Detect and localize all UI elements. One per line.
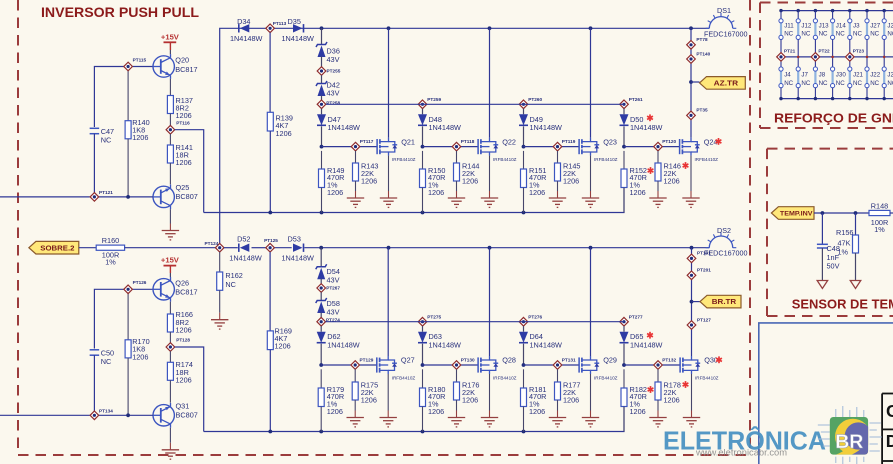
ground (Q23 source) xyxy=(582,156,599,208)
resistor R152 470R 1% xyxy=(621,151,653,213)
wire gate net PT120 xyxy=(622,145,680,149)
ground (R176) xyxy=(448,418,465,427)
ground (Q21 source) xyxy=(380,156,397,208)
svg-text:NC: NC xyxy=(887,31,893,38)
dashed border REFORCO DE GND box xyxy=(760,3,893,129)
wire gate net PT132 xyxy=(622,363,680,367)
resistor R151 470R 1% xyxy=(521,151,547,213)
diode D52 1N4148W xyxy=(229,235,262,263)
svg-text:1N4148W: 1N4148W xyxy=(281,253,314,262)
zener diode D42 43V xyxy=(316,75,340,100)
title block frame xyxy=(882,394,893,464)
wire gate net PT130 xyxy=(421,363,479,367)
wire input net (left edge to Q31 base) xyxy=(0,413,153,417)
transistor Q31 BC807 xyxy=(153,401,198,427)
diode D65 1N4148W xyxy=(620,326,663,365)
wire base net Q26 / PT126 xyxy=(94,289,152,348)
title block letter D xyxy=(886,431,893,451)
wire gate net PT129 xyxy=(319,363,376,367)
svg-text:PT115: PT115 xyxy=(133,57,147,62)
wire gate net PT131 xyxy=(522,363,580,367)
svg-text:43V: 43V xyxy=(327,55,340,64)
capacitor C48 1nF 50V xyxy=(817,213,840,281)
svg-text:1206: 1206 xyxy=(529,188,545,197)
resistor R156 47K 1% xyxy=(836,213,859,281)
svg-text:IRFB4410Z: IRFB4410Z xyxy=(493,157,517,162)
diode D64 1N4148W xyxy=(519,326,562,365)
svg-text:1206: 1206 xyxy=(630,188,646,197)
svg-text:D53: D53 xyxy=(288,235,301,244)
svg-text:Q23: Q23 xyxy=(603,137,617,146)
ground (R178) xyxy=(649,418,666,427)
svg-text:J12: J12 xyxy=(801,23,812,30)
zener diode D54 43V xyxy=(316,248,340,285)
section title INVERSOR PUSH PULL xyxy=(41,5,199,20)
svg-text:PT116: PT116 xyxy=(176,120,190,125)
svg-text:1206: 1206 xyxy=(327,188,343,197)
test point PT274 xyxy=(317,317,340,326)
test point PT276 xyxy=(519,314,542,326)
ground (R143) xyxy=(347,198,364,207)
svg-text:NC: NC xyxy=(853,31,862,38)
ground (Q27 source) xyxy=(380,374,397,427)
wire drain column Q29 xyxy=(590,248,592,356)
net flag TEMP.INV xyxy=(771,207,814,220)
net flag AZ.TR xyxy=(689,77,745,90)
wire input net (left edge to Q25 base) xyxy=(0,195,153,199)
svg-text:J27: J27 xyxy=(870,23,881,30)
test point PT261 xyxy=(620,97,643,109)
svg-text:DS1: DS1 xyxy=(717,6,731,15)
svg-text:NC: NC xyxy=(225,280,236,289)
svg-text:47K: 47K xyxy=(838,239,851,248)
svg-text:1%: 1% xyxy=(838,248,849,257)
wire driver output PT128 to gate rail xyxy=(175,347,204,432)
svg-text:IRFB4410Z: IRFB4410Z xyxy=(493,375,517,380)
watermark BR chip logo xyxy=(818,406,882,464)
ground (R144) xyxy=(448,198,465,207)
svg-text:PT261: PT261 xyxy=(629,97,643,102)
svg-text:1206: 1206 xyxy=(176,376,192,385)
transistor Q28 IRFB4410Z xyxy=(478,356,517,381)
jumper J26 NC xyxy=(882,9,893,57)
test point PT255 xyxy=(317,67,341,76)
svg-text:D52: D52 xyxy=(237,235,250,244)
wire drain column Q22 xyxy=(489,28,491,137)
wire gate net PT119 xyxy=(522,145,580,149)
resistor R170 1K8 xyxy=(125,337,150,415)
jumper J30 NC xyxy=(831,57,847,100)
svg-text:REFORÇO DE GND: REFORÇO DE GND xyxy=(774,111,893,126)
resistor R180 470R 1% xyxy=(420,369,446,431)
svg-text:NC: NC xyxy=(801,80,810,87)
svg-text:J21: J21 xyxy=(853,72,864,79)
svg-text:J3: J3 xyxy=(853,23,860,30)
svg-text:NC: NC xyxy=(819,80,828,87)
svg-text:R160: R160 xyxy=(102,236,119,245)
svg-text:1%: 1% xyxy=(874,225,885,234)
svg-text:AZ.TR: AZ.TR xyxy=(714,79,739,88)
test point PT134 xyxy=(90,408,113,419)
test point PT116 xyxy=(166,120,190,134)
svg-text:1206: 1206 xyxy=(176,158,192,167)
svg-text:PT134: PT134 xyxy=(99,408,113,413)
svg-text:DS2: DS2 xyxy=(717,226,731,235)
transistor Q26 BC817 xyxy=(153,277,198,302)
svg-text:NC: NC xyxy=(870,80,879,87)
svg-text:NC: NC xyxy=(784,31,793,38)
svg-text:Q30: Q30 xyxy=(704,356,718,365)
svg-text:PT125: PT125 xyxy=(264,238,278,243)
test point PT131 xyxy=(553,358,576,370)
lamp DS1 FEDC167000 xyxy=(704,6,748,38)
svg-text:R148: R148 xyxy=(871,201,888,210)
wire R160 to PT124 xyxy=(125,247,216,249)
diode D63 1N4148W xyxy=(418,326,461,365)
svg-text:+15V: +15V xyxy=(161,256,180,265)
svg-text:J23: J23 xyxy=(887,72,893,79)
test point PT260 xyxy=(519,97,542,109)
capacitor C47 NC xyxy=(90,127,114,193)
test point PT140 xyxy=(687,51,711,63)
section title REFORCO DE GND xyxy=(774,111,893,126)
test point PT132 xyxy=(654,358,677,370)
svg-text:1N4148W: 1N4148W xyxy=(630,123,663,132)
diode D47 1N4148W xyxy=(317,109,360,147)
resistor R179 470R 1% xyxy=(318,369,344,431)
svg-text:1206: 1206 xyxy=(275,341,291,350)
ground (R146) xyxy=(649,198,666,207)
svg-text:PT120: PT120 xyxy=(662,139,676,144)
jumper J21 NC xyxy=(848,57,864,100)
test point PT113 xyxy=(266,21,287,32)
transistor Q30 IRFB4410Z xyxy=(680,356,722,381)
svg-text:IRFB4410Z: IRFB4410Z xyxy=(392,157,416,162)
svg-text:43V: 43V xyxy=(327,276,340,285)
svg-text:PT127: PT127 xyxy=(697,317,711,322)
ground (R175) xyxy=(347,418,364,427)
transistor Q27 IRFB4410Z xyxy=(377,356,416,381)
power +15V (top driver) xyxy=(161,32,180,54)
svg-text:R156: R156 xyxy=(836,228,853,237)
ground (Q24 source) xyxy=(682,156,699,208)
ground (R177) xyxy=(549,418,566,427)
svg-text:1206: 1206 xyxy=(276,129,292,138)
svg-text:PT23: PT23 xyxy=(853,48,865,53)
svg-text:Q20: Q20 xyxy=(175,56,189,65)
svg-text:PT117: PT117 xyxy=(360,139,374,144)
svg-text:PT130: PT130 xyxy=(461,358,475,363)
svg-text:50V: 50V xyxy=(827,262,840,271)
svg-text:PT78: PT78 xyxy=(696,37,708,42)
svg-text:NC: NC xyxy=(853,80,862,87)
wire driver output PT116 to gate rail xyxy=(175,130,204,213)
wire drain column Q23 xyxy=(590,28,592,137)
svg-text:1206: 1206 xyxy=(563,176,579,185)
svg-text:PT35: PT35 xyxy=(696,108,708,113)
jumper J11 NC xyxy=(779,9,794,57)
svg-text:PT131: PT131 xyxy=(562,358,576,363)
svg-text:FEDC167000: FEDC167000 xyxy=(704,29,748,38)
section title SENSOR DE TEMPERATURA xyxy=(792,297,893,312)
zener diode D36 43V xyxy=(316,28,340,66)
jumper J23 NC xyxy=(882,57,893,100)
resistor R166 8R2 xyxy=(167,302,193,343)
svg-text:Q24: Q24 xyxy=(704,137,718,146)
ground (Q29 source) xyxy=(582,374,599,427)
jumper J4 NC xyxy=(779,57,794,100)
svg-text:Q27: Q27 xyxy=(401,356,415,365)
resistor R177 22K xyxy=(555,369,581,417)
resistor R150 470R 1% xyxy=(420,151,446,213)
wire PT258 rail (top) xyxy=(326,103,624,105)
svg-text:BC817: BC817 xyxy=(175,65,197,74)
svg-text:1206: 1206 xyxy=(428,407,444,416)
svg-text:1206: 1206 xyxy=(428,188,444,197)
svg-text:PT277: PT277 xyxy=(629,314,643,319)
svg-text:SOBRE.2: SOBRE.2 xyxy=(40,243,74,252)
svg-text:+15V: +15V xyxy=(161,32,180,41)
net flag SOBRE.2 xyxy=(29,241,79,254)
test point PT124 xyxy=(204,241,224,252)
test point PT119 xyxy=(553,139,576,151)
test point PT121 xyxy=(90,190,113,201)
svg-text:J14: J14 xyxy=(836,23,847,30)
wire base net Q20 / PT115 xyxy=(94,67,152,128)
resistor R149 470R 1% xyxy=(319,151,345,213)
ground (Q22 source) xyxy=(481,156,498,208)
svg-text:PT21: PT21 xyxy=(784,48,796,53)
svg-text:Q31: Q31 xyxy=(176,401,190,410)
svg-text:1%: 1% xyxy=(105,258,116,267)
svg-text:Q26: Q26 xyxy=(175,278,189,287)
watermark ELETRONICA BR xyxy=(663,426,826,458)
transistor Q21 IRFB4410Z xyxy=(377,137,416,162)
jumper J7 NC xyxy=(796,57,811,100)
svg-text:Q25: Q25 xyxy=(176,183,190,192)
transistor Q22 IRFB4410Z xyxy=(478,137,517,162)
diode D34 1N4148W xyxy=(230,17,263,43)
test point PT191 xyxy=(687,251,711,263)
svg-text:1206: 1206 xyxy=(361,176,377,185)
svg-text:PT191: PT191 xyxy=(697,251,711,256)
wire drain column Q27 xyxy=(387,248,389,356)
resistor R181 470R 1% xyxy=(521,369,547,431)
svg-text:IRFB4410Z: IRFB4410Z xyxy=(594,157,618,162)
diode D62 1N4148W xyxy=(317,326,360,365)
ground (Q31 emitter) xyxy=(162,428,179,460)
wire top drive rail xyxy=(204,188,624,215)
svg-text:1206: 1206 xyxy=(176,111,192,120)
resistor R144 22K xyxy=(454,151,480,198)
resistor R176 22K xyxy=(454,369,480,417)
junction (grid mid bus) xyxy=(797,56,800,59)
resistor R146 22K xyxy=(655,151,688,198)
wire drain column Q30 xyxy=(691,248,693,356)
net flag BR.TR xyxy=(690,295,741,308)
svg-text:PT276: PT276 xyxy=(528,314,542,319)
svg-text:J11: J11 xyxy=(784,23,794,30)
test point PT277 xyxy=(620,314,643,326)
wire top drain rail xyxy=(220,26,710,243)
svg-text:www.eletronicabr.com: www.eletronicabr.com xyxy=(695,447,787,457)
svg-text:NC: NC xyxy=(784,80,793,87)
junction (grid mid bus) xyxy=(866,56,869,59)
resistor R162 NC xyxy=(217,252,243,290)
svg-text:PT140: PT140 xyxy=(696,51,710,56)
resistor R148 100R 1% xyxy=(869,201,893,234)
test point PT275 xyxy=(418,314,441,326)
resistor R137 8R2 xyxy=(167,79,193,126)
svg-text:Q28: Q28 xyxy=(502,356,516,365)
test point PT267 xyxy=(317,284,341,293)
svg-text:1206: 1206 xyxy=(132,133,148,142)
svg-text:D: D xyxy=(886,431,893,451)
svg-text:NC: NC xyxy=(836,80,845,87)
test point PT125 xyxy=(264,238,278,252)
svg-text:1206: 1206 xyxy=(664,395,680,404)
svg-text:PT129: PT129 xyxy=(360,358,374,363)
jumper J13 NC xyxy=(813,9,829,57)
svg-text:NC: NC xyxy=(801,31,810,38)
svg-text:J30: J30 xyxy=(836,72,847,79)
wire TEMP.INV net xyxy=(814,211,869,215)
svg-text:INVERSOR PUSH PULL: INVERSOR PUSH PULL xyxy=(41,5,199,20)
capacitor C50 NC xyxy=(90,349,114,412)
jumper J14 NC xyxy=(831,9,847,57)
test point PT259 xyxy=(418,97,441,109)
svg-text:J7: J7 xyxy=(801,72,808,79)
ground (Q28 source) xyxy=(481,374,498,427)
test point PT258 xyxy=(317,100,340,109)
svg-text:1N4148W: 1N4148W xyxy=(429,123,462,132)
resistor R139 4K7 xyxy=(267,33,293,213)
svg-text:BC817: BC817 xyxy=(175,288,197,297)
transistor Q23 IRFB4410Z xyxy=(579,137,618,162)
svg-text:J8: J8 xyxy=(819,72,826,79)
dashed border SENSOR DE TEMPERATURA box xyxy=(767,149,893,316)
svg-text:NC: NC xyxy=(101,357,112,366)
diode D48 1N4148W xyxy=(418,109,461,147)
test point PT201 xyxy=(687,268,711,280)
resistor R182 470R 1% xyxy=(621,369,653,431)
test point PT23 xyxy=(846,48,865,61)
svg-text:PT119: PT119 xyxy=(562,139,576,144)
jumper J8 NC xyxy=(813,57,828,100)
svg-text:IRFB4410Z: IRFB4410Z xyxy=(392,375,416,380)
test point PT21 xyxy=(777,48,796,61)
zener diode D58 43V xyxy=(316,292,340,317)
svg-text:1206: 1206 xyxy=(176,326,192,335)
jumper J22 NC xyxy=(865,57,881,100)
svg-text:1N4148W: 1N4148W xyxy=(229,253,262,262)
test point PT120 xyxy=(654,139,677,151)
jumper J27 NC xyxy=(865,9,881,57)
svg-text:D35: D35 xyxy=(288,17,301,26)
svg-text:C: C xyxy=(886,401,893,421)
svg-text:J22: J22 xyxy=(870,72,881,79)
svg-text:PT260: PT260 xyxy=(528,97,542,102)
svg-text:1N4148W: 1N4148W xyxy=(281,34,314,43)
title block letter C xyxy=(886,401,893,421)
svg-text:1206: 1206 xyxy=(529,407,545,416)
test point PT22 xyxy=(811,48,830,61)
svg-text:IRFB4410Z: IRFB4410Z xyxy=(594,375,618,380)
svg-text:43V: 43V xyxy=(327,307,340,316)
svg-text:1206: 1206 xyxy=(462,176,478,185)
wire gate net PT118 xyxy=(421,145,479,149)
test point PT130 xyxy=(452,358,475,370)
svg-text:TEMP.INV: TEMP.INV xyxy=(780,211,813,218)
svg-text:1206: 1206 xyxy=(563,395,579,404)
svg-text:1206: 1206 xyxy=(630,407,646,416)
svg-text:1N4148W: 1N4148W xyxy=(327,341,360,350)
wire jumper grid buses xyxy=(781,11,893,99)
svg-text:PT259: PT259 xyxy=(427,97,441,102)
ground (Q30 source) xyxy=(683,374,700,427)
transistor Q25 BC807 xyxy=(153,183,198,209)
svg-text:BC807: BC807 xyxy=(176,411,198,420)
svg-text:PT267: PT267 xyxy=(326,286,340,291)
svg-text:PT113: PT113 xyxy=(273,21,287,26)
svg-text:IRFB4410Z: IRFB4410Z xyxy=(695,157,719,162)
lamp DS2 FEDC167000 xyxy=(704,226,748,258)
svg-text:43V: 43V xyxy=(327,89,340,98)
transistor Q29 IRFB4410Z xyxy=(579,356,618,381)
svg-text:PT132: PT132 xyxy=(662,358,676,363)
ground (Q25 emitter) xyxy=(162,209,179,240)
power arrow (C48) xyxy=(817,281,828,289)
wire bottom drain rail xyxy=(224,246,709,250)
svg-text:PT201: PT201 xyxy=(697,268,711,273)
svg-text:PT126: PT126 xyxy=(133,280,147,285)
svg-text:1N4148W: 1N4148W xyxy=(429,341,462,350)
svg-text:NC: NC xyxy=(836,31,845,38)
svg-text:PT22: PT22 xyxy=(818,48,830,53)
jumper J12 NC xyxy=(796,9,812,57)
svg-text:PT255: PT255 xyxy=(327,69,341,74)
resistor R169 4K7 xyxy=(267,252,292,432)
svg-text:J13: J13 xyxy=(819,23,830,30)
svg-text:PT118: PT118 xyxy=(461,139,475,144)
svg-text:NC: NC xyxy=(101,135,112,144)
svg-text:Q22: Q22 xyxy=(502,137,516,146)
resistor R141 18R xyxy=(167,134,193,184)
svg-text:PT121: PT121 xyxy=(99,190,113,195)
svg-text:1206: 1206 xyxy=(327,407,343,416)
junction (grid mid bus) xyxy=(883,56,886,59)
svg-text:NC: NC xyxy=(819,31,828,38)
jumper J3 NC xyxy=(848,9,863,57)
test point PT127 xyxy=(687,317,711,329)
wire gate net PT117 xyxy=(320,145,378,149)
svg-text:Q29: Q29 xyxy=(603,356,617,365)
ground (R145) xyxy=(549,198,566,207)
resistor R178 22K xyxy=(655,369,688,417)
test point PT128 xyxy=(166,338,190,352)
blue sheet border box bottom right xyxy=(759,323,893,464)
svg-text:J26: J26 xyxy=(887,23,893,30)
svg-text:1N4148W: 1N4148W xyxy=(630,341,663,350)
resistor R175 22K xyxy=(352,369,378,417)
test point PT78 xyxy=(687,37,708,49)
svg-text:1206: 1206 xyxy=(664,176,680,185)
diode D50 1N4148W xyxy=(620,109,663,147)
svg-text:1N4148W: 1N4148W xyxy=(328,123,361,132)
power arrow (R156) xyxy=(850,281,861,289)
svg-text:BR: BR xyxy=(835,431,863,453)
svg-text:Q21: Q21 xyxy=(401,137,415,146)
